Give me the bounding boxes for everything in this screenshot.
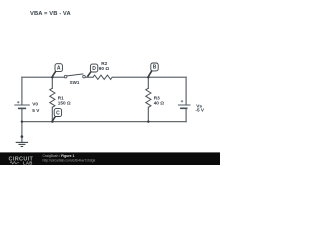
battery V0 short plate — [18, 107, 26, 109]
svg-text:D: D — [92, 66, 96, 72]
switch SW1 lever — [66, 74, 83, 76]
ground junction dot — [21, 135, 24, 138]
battery Vs short plate — [180, 107, 187, 109]
resistor R1 zigzag — [50, 88, 55, 107]
svg-text:A: A — [57, 65, 61, 71]
wire ground stub — [21, 122, 23, 143]
svg-text:CraigBush / Figure 1: CraigBush / Figure 1 — [43, 154, 75, 158]
wire R1 top stub — [51, 77, 53, 88]
wire bottom — [22, 121, 186, 123]
battery Vs plus sign — [181, 100, 183, 102]
svg-text:http://circuitlab.com/c/6r4kw7: http://circuitlab.com/c/6r4kw7zh3gk — [43, 158, 96, 162]
switch SW1 right terminal — [83, 75, 86, 78]
wire left vertical lower — [21, 109, 23, 122]
node B flag box — [151, 63, 158, 71]
footer logo zigzag — [10, 162, 19, 164]
wire R2 to node B to right corner — [112, 76, 186, 78]
node A flag box — [55, 64, 62, 72]
node A flag tail — [52, 71, 56, 77]
wire R3 bottom stub — [147, 107, 149, 121]
junction dot R3 bottom — [147, 120, 149, 122]
wire top-left: node A to left corner — [22, 76, 64, 78]
ground — [16, 142, 28, 146]
battery V0 long plate — [14, 104, 29, 106]
node D flag box — [90, 64, 97, 72]
junction dot bottom-left — [21, 120, 23, 122]
svg-text:VBA = VB - VA: VBA = VB - VA — [30, 11, 71, 17]
svg-text:B: B — [153, 65, 157, 71]
battery V0 plus sign — [17, 101, 19, 103]
wire switch to R2 — [85, 76, 93, 78]
node B flag tail — [148, 71, 152, 77]
battery Vs long plate — [178, 104, 191, 106]
wire right vertical lower — [185, 109, 187, 122]
resistor R2 zigzag — [93, 75, 112, 79]
svg-text:C: C — [56, 110, 60, 116]
wire R1 bottom stub — [51, 107, 53, 121]
wire right vertical upper — [185, 77, 187, 104]
svg-text:5 V: 5 V — [32, 108, 40, 113]
wire R3 top stub — [147, 77, 149, 88]
svg-text:LAB: LAB — [23, 160, 33, 165]
resistor R3 zigzag — [146, 88, 151, 107]
junction dot node C — [51, 120, 53, 122]
wire left vertical upper — [21, 77, 23, 104]
svg-text:SW1: SW1 — [70, 80, 80, 85]
node C flag tail — [52, 115, 56, 121]
junction dot node A — [51, 76, 53, 78]
node C flag box — [54, 109, 61, 117]
svg-text:40 Ω: 40 Ω — [154, 100, 165, 105]
svg-text:150 Ω: 150 Ω — [58, 100, 71, 105]
footer bar — [0, 152, 220, 165]
svg-text:90 Ω: 90 Ω — [99, 66, 110, 71]
svg-text:V0: V0 — [32, 102, 38, 107]
svg-text:-5 V: -5 V — [195, 107, 204, 112]
junction dot node B — [147, 76, 149, 78]
node D flag tail — [87, 71, 91, 76]
switch SW1 left terminal — [64, 75, 67, 78]
